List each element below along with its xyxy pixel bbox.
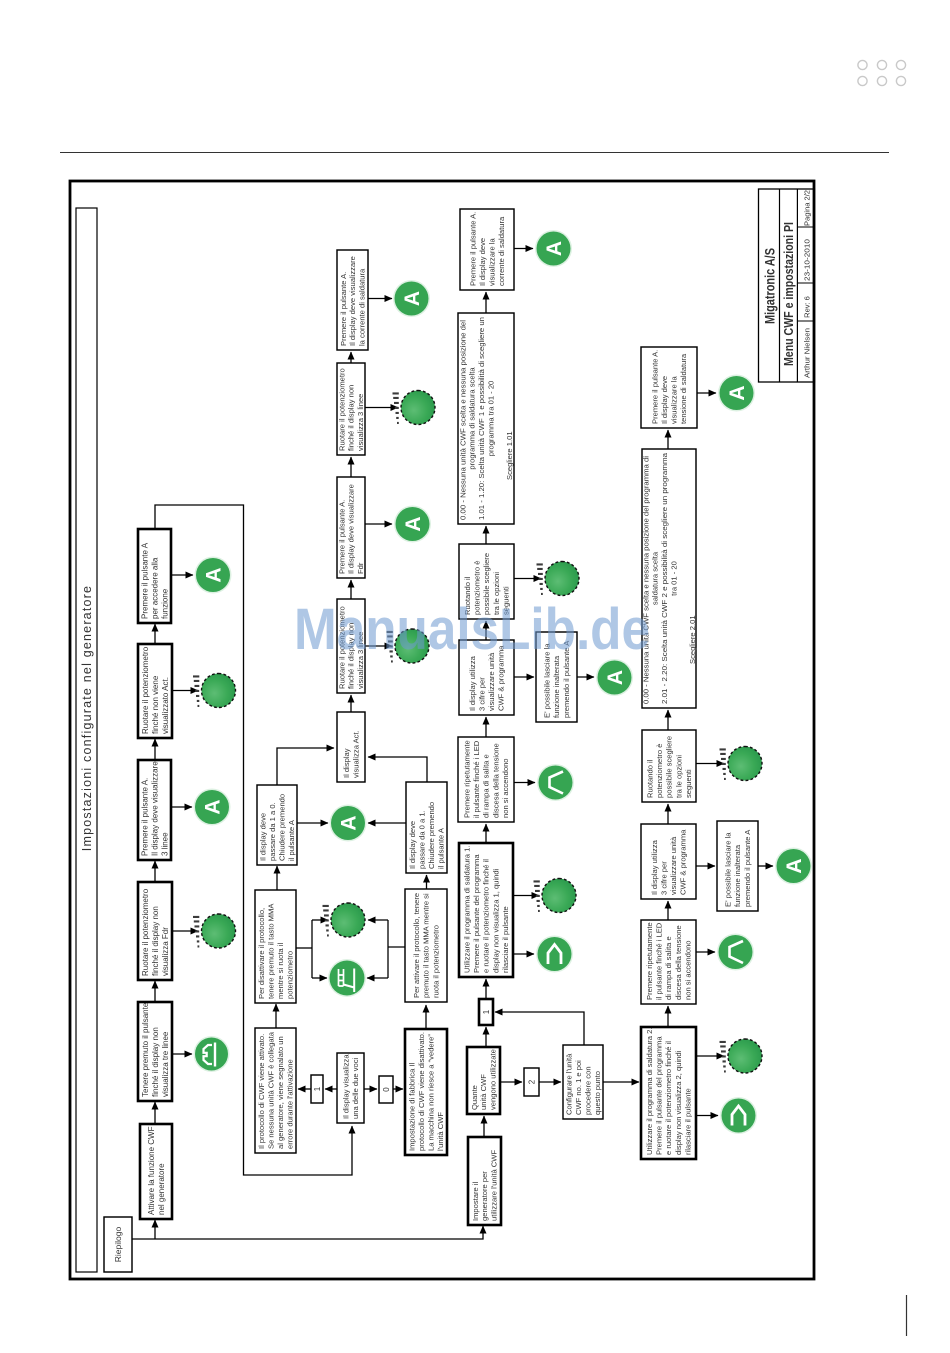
svg-text:Chiudere premendo: Chiudere premendo — [278, 794, 287, 861]
svg-text:Scegliere 1.01: Scegliere 1.01 — [505, 431, 514, 480]
svg-text:Premere il pulsante A.: Premere il pulsante A. — [338, 500, 347, 574]
wire E6-E7 — [485, 621, 487, 640]
svg-text:CWF & programma: CWF & programma — [679, 829, 688, 895]
wire F6-F7 — [667, 710, 669, 730]
svg-text:Il protocollo di CWF viene att: Il protocollo di CWF viene attivato. — [257, 1034, 266, 1149]
wire B1-B2 — [275, 1004, 277, 1028]
svg-text:funzione: funzione — [160, 588, 169, 619]
svg-text:Il display utilizza: Il display utilizza — [468, 655, 477, 711]
icon program house 2 — [720, 1097, 757, 1134]
box F3 Utilizzare il programma di saldatura 2 — [641, 1027, 696, 1159]
svg-text:visualizzare unità: visualizzare unità — [669, 836, 678, 895]
box A6 Premere pulsante A accedere — [138, 529, 171, 623]
svg-text:3 cifre per: 3 cifre per — [477, 677, 486, 711]
svg-text:rilasciare il pulsante: rilasciare il pulsante — [501, 906, 510, 973]
svg-text:mentre si ruota il: mentre si ruota il — [276, 943, 285, 999]
svg-text:Configurare l'unità: Configurare l'unità — [564, 1053, 573, 1115]
svg-text:discesa della tensione: discesa della tensione — [674, 925, 683, 1000]
svg-text:protocollo di CWF viene disatt: protocollo di CWF viene disattivato. — [417, 1032, 426, 1151]
icon A button shared — [330, 805, 367, 842]
box E7 Ruotando il potenziometro — [459, 544, 514, 619]
box F7 opzioni 0.00 / 2.01-2.20 — [642, 449, 696, 708]
box C2 value 0 — [379, 1076, 393, 1103]
wire E5-E6 — [485, 717, 487, 737]
rotated flowchart (landscape drawing rotated 90 deg CCW) — [76, 189, 815, 1272]
wire E6-E10 — [514, 676, 534, 678]
svg-text:Premere il pulsante A.: Premere il pulsante A. — [339, 272, 348, 346]
binder dots — [858, 60, 906, 85]
wire E4-E5 — [485, 824, 487, 843]
icon A row3 a — [394, 506, 431, 543]
wire F2-F3 — [603, 1081, 639, 1083]
svg-text:programma tra 01 - 20: programma tra 01 - 20 — [486, 381, 495, 457]
box F6 Ruotando il potenziometro 2 — [642, 730, 696, 802]
svg-text:seguenti: seguenti — [684, 769, 693, 798]
svg-text:la corrente di saldatura: la corrente di saldatura — [357, 268, 366, 346]
wire F8-A — [697, 392, 716, 394]
svg-text:1: 1 — [482, 1009, 491, 1014]
icon A corrente saldatura — [535, 230, 572, 267]
svg-text:Ruotare il potenziometro: Ruotare il potenziometro — [141, 646, 150, 734]
wire E3-E4 — [485, 979, 487, 999]
svg-text:0: 0 — [382, 1087, 391, 1092]
svg-text:A: A — [726, 385, 749, 400]
wire A6-A button — [171, 574, 193, 576]
svg-text:tenere premuto il tasto MMA: tenere premuto il tasto MMA — [266, 903, 275, 999]
wire D3-A button — [368, 822, 406, 824]
svg-text:Tenere premuto il pulsante: Tenere premuto il pulsante — [141, 1002, 150, 1097]
wire F5-F9 — [696, 865, 715, 867]
wire F7-F8 — [667, 430, 669, 449]
svg-text:finché il display non: finché il display non — [151, 906, 160, 976]
svg-text:possibile scegliere: possibile scegliere — [665, 736, 674, 798]
svg-text:finché il display non: finché il display non — [347, 385, 356, 451]
wire D2 icon bar — [387, 920, 389, 978]
wire C4-C5 — [350, 580, 352, 599]
svg-text:Il display visualizza: Il display visualizza — [341, 1054, 350, 1119]
box B1 Il protocollo di CWF viene attivato — [255, 1028, 296, 1153]
wire F6-knob — [696, 763, 724, 765]
wire A3-knob — [172, 930, 198, 932]
box F1 value 2 — [524, 1068, 539, 1096]
svg-text:vengono utilizzate: vengono utilizzate — [489, 1049, 498, 1110]
svg-text:La macchina non riesce a “vede: La macchina non riesce a “vedere” — [427, 1034, 436, 1151]
svg-text:3 cifre per: 3 cifre per — [659, 861, 668, 895]
box D2 Per attivare il protocollo — [405, 889, 447, 1002]
svg-text:E' possibile lasciare la: E' possibile lasciare la — [724, 832, 733, 907]
svg-text:e ruotare il potenziometro fin: e ruotare il potenziometro finché il — [664, 1041, 673, 1155]
box E6 Il display utilizza 3 cifre — [459, 640, 514, 715]
svg-text:Quante: Quante — [470, 1085, 479, 1110]
svg-text:display non visualizza 1, quin: display non visualizza 1, quindi — [491, 868, 500, 973]
icon knob shared — [323, 903, 366, 937]
box E9 Premere pulsante A corrente saldatura — [460, 209, 514, 290]
wire E7-knob — [514, 578, 541, 580]
svg-text:A: A — [604, 670, 627, 685]
svg-text:il pulsante A: il pulsante A — [437, 827, 446, 869]
flowchart header strip "Impostazioni configurate nel generatore" — [76, 208, 97, 1272]
wire F9-A — [758, 865, 773, 867]
wire B2 icon bar — [311, 920, 313, 978]
svg-text:Se nessuna unità CWF è collega: Se nessuna unità CWF è collegata — [266, 1031, 275, 1149]
box A2 Tenere premuto il pulsante — [138, 1002, 172, 1101]
icon knob saldatura 1 — [534, 879, 577, 913]
svg-text:Menu CWF e impostazioni PI: Menu CWF e impostazioni PI — [781, 222, 796, 366]
svg-text:Rev: 6: Rev: 6 — [803, 296, 812, 318]
svg-text:procedere con: procedere con — [584, 1066, 593, 1115]
svg-text:utilizzare l'unità CWF: utilizzare l'unità CWF — [490, 1150, 499, 1221]
svg-text:Premere il pulsante A: Premere il pulsante A — [140, 542, 149, 619]
svg-text:Premere il pulsante A.: Premere il pulsante A. — [140, 778, 149, 856]
svg-text:A: A — [202, 799, 225, 814]
box F8 Premere pulsante A tensione — [641, 347, 697, 428]
wire A1-A2 — [154, 1102, 156, 1124]
svg-text:passare da 0 a 1.: passare da 0 a 1. — [417, 810, 426, 869]
svg-text:Il display deve: Il display deve — [408, 821, 417, 869]
svg-text:0.00 - Nessuna unità CWF scelt: 0.00 - Nessuna unità CWF scelta e nessun… — [458, 320, 467, 520]
svg-text:Il display utilizza: Il display utilizza — [650, 839, 659, 895]
wire C7-A — [368, 298, 392, 300]
svg-text:Il display deve visualizzare: Il display deve visualizzare — [348, 256, 357, 346]
svg-text:Chiudere premendo: Chiudere premendo — [427, 802, 436, 869]
box E8 opzioni 0.00 / 1.01-1.20 — [458, 313, 514, 524]
wire B2-knob — [312, 919, 328, 921]
svg-text:Il display deve: Il display deve — [258, 813, 267, 861]
svg-text:Migatronic A/S: Migatronic A/S — [763, 248, 778, 324]
svg-text:non si accendono: non si accendono — [683, 940, 692, 1000]
box E5 Premere ripetutamente LED — [458, 737, 514, 822]
wire E1-E2 — [483, 1116, 485, 1137]
box E2 Quante unita CWF — [467, 1047, 500, 1114]
wire loop A6 to Il display visualizza — [155, 505, 352, 1175]
svg-text:potenziometro: potenziometro — [286, 951, 295, 999]
svg-text:Il display deve visualizzare: Il display deve visualizzare — [347, 484, 356, 574]
box F4 Premere ripetutamente LED 2 — [641, 920, 696, 1004]
svg-text:ManualsLib.de: ManualsLib.de — [294, 597, 650, 662]
wire E5-ramp — [514, 782, 535, 784]
svg-text:Impostazioni configurate nel g: Impostazioni configurate nel generatore — [80, 585, 94, 851]
wire F3-knob — [696, 1055, 724, 1057]
svg-text:il pulsante finché i LED: il pulsante finché i LED — [655, 922, 664, 1000]
icon knob ruotando 2 — [720, 747, 763, 781]
svg-text:A: A — [783, 858, 806, 873]
wire C6-C7 — [350, 352, 352, 363]
svg-text:visualizzare la: visualizzare la — [670, 376, 679, 424]
svg-text:Scegliere 2.01: Scegliere 2.01 — [688, 615, 697, 664]
icon knob ruotando 1 — [537, 562, 580, 596]
svg-text:Il display: Il display — [342, 748, 351, 778]
svg-text:l'unità CWF: l'unità CWF — [436, 1112, 445, 1151]
wire D1-D2 — [425, 1005, 427, 1029]
icon A row3 b — [393, 280, 430, 317]
box C1 Il display visualizza una delle due voci — [337, 1053, 364, 1123]
icon A tensione saldatura — [718, 375, 755, 412]
wire F3-house — [696, 1115, 718, 1117]
svg-text:di rampa di salita e: di rampa di salita e — [482, 754, 491, 818]
wire E9-A — [514, 248, 533, 250]
svg-text:tensione di saldatura: tensione di saldatura — [679, 353, 688, 424]
icon A lasciare 2 — [775, 848, 812, 885]
svg-text:Premere ripetutamente: Premere ripetutamente — [645, 922, 654, 1000]
svg-text:3 linee: 3 linee — [160, 832, 169, 856]
svg-text:Attivare la funzione CWF: Attivare la funzione CWF — [147, 1126, 156, 1215]
svg-text:Ruotando il: Ruotando il — [646, 759, 655, 798]
svg-text:tra 01 - 20: tra 01 - 20 — [669, 561, 678, 596]
svg-text:0.00 - Nessuna unità CWF scelt: 0.00 - Nessuna unità CWF scelta e nessun… — [641, 456, 650, 704]
svg-text:visualizza 3 linee: visualizza 3 linee — [356, 394, 365, 451]
svg-text:23-10-2010: 23-10-2010 — [803, 239, 812, 281]
box A5 Ruotare potenziometro Act — [138, 644, 172, 738]
wire branch to Attivare — [154, 1220, 156, 1239]
svg-text:saldatura scelta: saldatura scelta — [651, 551, 660, 605]
wire C3-C4 — [350, 695, 352, 712]
svg-text:Premere ripetutamente: Premere ripetutamente — [463, 740, 472, 818]
svg-text:per accedere alla: per accedere alla — [150, 557, 159, 619]
wire C1-C0 — [325, 1088, 337, 1090]
wire E2-F1 — [500, 1081, 522, 1083]
wire B2 split to icons — [296, 947, 312, 949]
box D3 Il display deve passare da 0 a 1 — [406, 782, 447, 873]
wire F1-F2 — [539, 1081, 561, 1083]
icon program house 1 — [536, 936, 573, 973]
svg-text:il pulsante finché i LED: il pulsante finché i LED — [472, 740, 481, 818]
svg-text:Premere il pulsante A.: Premere il pulsante A. — [650, 350, 659, 424]
box C3 Il display visualizza Act — [337, 712, 365, 782]
svg-text:questo punto: questo punto — [593, 1071, 602, 1115]
wire B3 to C3 — [277, 748, 334, 785]
wire C4-knob — [365, 645, 392, 647]
box A4 Premere pulsante A 3 linee — [138, 760, 171, 860]
svg-text:Utilizzare il programma di sal: Utilizzare il programma di saldatura 1. — [463, 846, 472, 973]
outer drawing frame — [70, 181, 814, 1279]
wire C6-knob — [365, 407, 398, 409]
top rule — [60, 152, 889, 154]
icon A lasciare 1 — [596, 659, 633, 696]
box A3 Ruotare potenziometro Fdr — [138, 882, 172, 980]
icon ramp LED 1 — [537, 764, 574, 801]
svg-text:errore durante l'attivazione: errore durante l'attivazione — [286, 1059, 295, 1149]
svg-text:A: A — [203, 567, 226, 582]
wire D3 to C3 — [368, 757, 427, 782]
svg-text:discesa della tensione: discesa della tensione — [491, 743, 500, 818]
wire D2-knob — [368, 919, 388, 921]
svg-text:rilasciare il pulsante: rilasciare il pulsante — [683, 1088, 692, 1155]
box F5 Il display utilizza 3 cifre 2 — [641, 824, 696, 899]
wire F4-ramp — [696, 951, 715, 953]
svg-text:1.01 - 1.20: Scelta unità CWF: 1.01 - 1.20: Scelta unità CWF 1 e possib… — [477, 317, 486, 520]
box F2 Configurare l'unita CWF no 1 — [563, 1045, 603, 1119]
svg-text:1: 1 — [313, 1086, 322, 1091]
icon knob Act — [193, 674, 236, 708]
box B2 Per disattivare il protocollo — [255, 890, 296, 1003]
box C6 Ruotare potenziometro 3 linee 2 — [337, 363, 365, 455]
svg-text:Premere il pulsante del progra: Premere il pulsante del programma — [655, 1036, 664, 1155]
svg-text:Ruotare il potenziometro: Ruotare il potenziometro — [338, 368, 347, 451]
svg-text:Pagina 2/2: Pagina 2/2 — [803, 190, 812, 226]
svg-text:2: 2 — [527, 1079, 536, 1084]
svg-text:A: A — [543, 241, 566, 256]
wire F5-F6 — [667, 804, 669, 824]
wire E7-E8 — [485, 526, 487, 544]
svg-text:Per attivare il protocollo, te: Per attivare il protocollo, tenere — [412, 893, 421, 998]
svg-text:Il display deve visualizzare: Il display deve visualizzare — [150, 761, 159, 856]
wire E2-E3 — [485, 1027, 487, 1047]
box C7 Premere pulsante A corrente — [337, 250, 368, 350]
svg-text:Il display deve: Il display deve — [660, 376, 669, 424]
bottom right tick — [906, 1295, 908, 1336]
icon torch button — [194, 1036, 230, 1072]
wire B2-mma — [312, 977, 327, 979]
wire A3-A4 — [154, 861, 156, 882]
box E10 E possibile lasciare — [536, 632, 577, 722]
box C4 Ruotare potenziometro 3 linee — [337, 599, 365, 693]
svg-text:funzione inalterata: funzione inalterata — [733, 844, 742, 907]
wire A5-knob — [172, 690, 198, 692]
svg-text:A: A — [401, 291, 424, 306]
svg-text:Premere il pulsante del progra: Premere il pulsante del programma — [472, 854, 481, 973]
svg-text:display non visualizza 2, quin: display non visualizza 2, quindi — [674, 1050, 683, 1155]
svg-text:funzione inalterata: funzione inalterata — [552, 655, 561, 718]
svg-text:visualizza Act.: visualizza Act. — [352, 730, 361, 778]
svg-text:Premere il pulsante A.: Premere il pulsante A. — [468, 212, 477, 286]
wire A4-A button — [171, 806, 192, 808]
box E1 Impostare il generatore — [468, 1137, 501, 1225]
box C5 Premere pulsante A Fdr — [337, 477, 365, 578]
svg-text:CWF no. 1 e poi: CWF no. 1 e poi — [574, 1060, 583, 1115]
wire A5-A6 — [154, 624, 156, 644]
wire C0-B1 — [298, 1088, 311, 1090]
wire B2-B3 — [276, 866, 278, 890]
svg-text:A: A — [338, 815, 361, 830]
icon A button 3 linee — [194, 789, 231, 826]
svg-text:Utilizzare il programma di sal: Utilizzare il programma di saldatura 2. — [645, 1028, 654, 1155]
svg-text:una delle due voci: una delle due voci — [351, 1057, 360, 1119]
wire F2 loop to E3 — [495, 1012, 584, 1045]
svg-text:programma di saldatura scelta: programma di saldatura scelta — [468, 367, 477, 470]
svg-text:passare da 1 a 0.: passare da 1 a 0. — [268, 802, 277, 861]
wire E4-knob — [513, 895, 539, 897]
wire C2-D1 — [393, 1088, 403, 1090]
box E4 Utilizzare il programma di saldatura 1 — [459, 843, 513, 977]
svg-text:visualizza Fdr: visualizza Fdr — [161, 927, 170, 976]
icon knob row3 a — [387, 629, 430, 663]
wire A2-A3 — [154, 981, 156, 1002]
svg-text:di rampa di salita e: di rampa di salita e — [664, 936, 673, 1000]
wire D2-mma — [367, 977, 388, 979]
svg-text:ruota il potenziometro: ruota il potenziometro — [431, 925, 440, 998]
box C0 value 1 — [311, 1075, 323, 1103]
svg-text:2.01 - 2.20: Scelta unità CWF: 2.01 - 2.20: Scelta unità CWF 2 e possib… — [660, 452, 669, 704]
box A1 Attivare la funzione CWF — [140, 1124, 172, 1219]
wire C5-A — [365, 523, 392, 525]
wire E8-E9 — [485, 292, 487, 313]
svg-text:nel generatore: nel generatore — [157, 1163, 166, 1215]
title block cell date — [797, 226, 814, 228]
wire E4-house — [513, 953, 534, 955]
icon MMA electrode — [328, 959, 366, 997]
svg-text:Fdr: Fdr — [356, 562, 365, 574]
title block — [759, 189, 815, 382]
svg-text:premuto il tasto MMA mentre si: premuto il tasto MMA mentre si — [422, 893, 431, 998]
icon ramp LED 2 — [717, 934, 754, 971]
svg-text:premendo il pulsante A: premendo il pulsante A — [743, 829, 752, 907]
svg-text:visualizza tre linee: visualizza tre linee — [161, 1031, 170, 1097]
box D1 Impostazione di fabbrica — [405, 1029, 447, 1155]
wire D2-D3 — [426, 875, 428, 889]
svg-text:Per disattivare il protocollo,: Per disattivare il protocollo, — [257, 908, 266, 999]
wire D2 split to icons — [388, 946, 405, 948]
box F9 E possibile lasciare 2 — [717, 821, 758, 911]
svg-text:corrente di saldatura: corrente di saldatura — [497, 216, 506, 286]
svg-text:Impostare il: Impostare il — [471, 1181, 480, 1221]
icon A button accedere — [195, 557, 232, 594]
title block cell Arthur Nielsen — [797, 320, 814, 322]
svg-text:unità CWF: unità CWF — [479, 1074, 488, 1110]
svg-text:e ruotare il potenziometro fin: e ruotare il potenziometro finché il — [482, 859, 491, 973]
svg-text:finché non viene: finché non viene — [151, 675, 160, 734]
icon knob row3 b — [393, 391, 436, 425]
wire A4-A5 — [154, 739, 156, 760]
icon knob Fdr — [193, 914, 236, 948]
svg-text:non si accendono: non si accendono — [501, 758, 510, 818]
wire trunk Riepilogo to Impostare il generatore — [132, 1226, 483, 1239]
wire F3-F4 — [667, 1006, 669, 1027]
title block cell Rev 6 — [797, 282, 814, 284]
box B3 Il display deve passare da 1 a 0 — [257, 785, 297, 865]
title block row Migatronic A/S — [779, 189, 781, 382]
svg-text:finché il display non: finché il display non — [151, 1027, 160, 1097]
svg-text:al generatore, viene segnalato: al generatore, viene segnalato un — [276, 1036, 285, 1149]
wire E10-A — [577, 676, 594, 678]
svg-text:A: A — [402, 516, 425, 531]
svg-text:Il display deve: Il display deve — [478, 238, 487, 286]
wire A2-torch — [172, 1053, 192, 1055]
svg-text:visualizzare la: visualizzare la — [488, 238, 497, 286]
svg-text:Ruotare il potenziometro: Ruotare il potenziometro — [141, 888, 150, 976]
svg-text:generatore per: generatore per — [480, 1171, 489, 1221]
svg-text:tra le opzioni: tra le opzioni — [674, 755, 683, 798]
svg-text:potenziometro è: potenziometro è — [655, 744, 664, 798]
box Riepilogo (start) — [104, 1217, 132, 1272]
svg-text:Riepilogo: Riepilogo — [113, 1227, 123, 1263]
title block row Menu CWF e impostazioni PI — [796, 189, 798, 382]
wire F4-F5 — [667, 901, 669, 920]
svg-text:visualizzato Act.: visualizzato Act. — [161, 677, 170, 734]
svg-text:il pulsante A: il pulsante A — [287, 819, 296, 861]
icon knob saldatura 2 — [720, 1039, 763, 1073]
wire B3-A button — [297, 822, 328, 824]
wire C5-C6 — [350, 457, 352, 477]
svg-text:Impostazione di fabbrica Il: Impostazione di fabbrica Il — [407, 1062, 416, 1151]
svg-text:Arthur Nielsen: Arthur Nielsen — [803, 328, 812, 378]
box E3 value 1 — [479, 999, 493, 1025]
wire C1-C2 — [364, 1088, 377, 1090]
